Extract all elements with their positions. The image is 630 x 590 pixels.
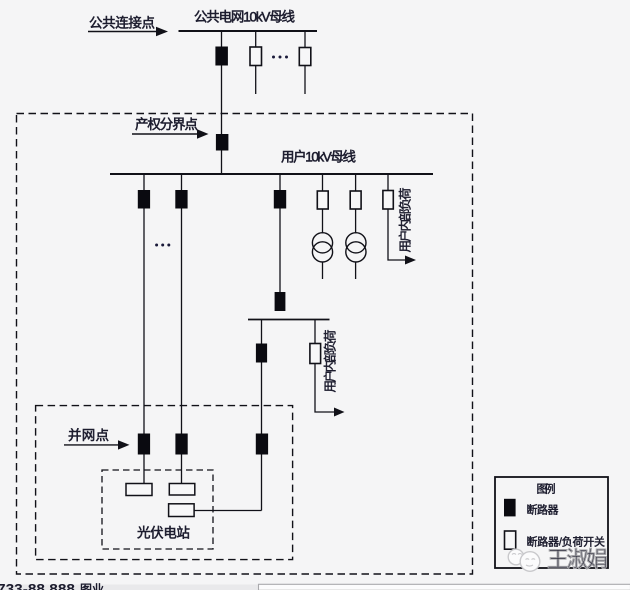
breaker QF1 (grid side, closed/filled) — [215, 47, 228, 66]
wire: PV feeder 1 — [143, 174, 145, 484]
ellipsis dots (more feeders) — [272, 56, 288, 59]
comment input box fragment bottom-right — [259, 584, 630, 590]
inverter unit 2 — [169, 484, 195, 496]
boundary: user installation dashed box — [17, 114, 473, 575]
switch S5 (internal load feeder) — [383, 191, 393, 210]
wire: inverter 3 to feeder 3 — [194, 510, 261, 512]
switch S2 (breaker/load switch) — [299, 48, 311, 66]
wire: grid feeder drop 2 — [255, 31, 257, 94]
switch S3 (transformer feeder 1) — [317, 191, 328, 209]
legend box — [495, 477, 608, 568]
switch S1 (breaker/load switch, open symbol) — [250, 47, 262, 66]
switch S4 (transformer feeder 2) — [350, 191, 361, 209]
breaker QF8 (grid connection point, feeder 1) — [138, 434, 150, 455]
arrow: internal load 2 — [334, 408, 345, 417]
svg-text:公共连接点: 公共连接点 — [89, 15, 155, 31]
arrow: public connection point pointer — [88, 27, 168, 36]
arrow: internal load 1 — [405, 256, 416, 265]
ellipsis dots (more PV feeders) — [155, 244, 170, 247]
boundary: grid-connection dashed box — [36, 406, 293, 560]
legend symbol: breaker/load switch — [505, 531, 516, 549]
wire: grid feeder drop (main) — [221, 31, 223, 174]
wire: internal load feeder — [388, 174, 406, 260]
wire: transformer feeder 1 — [322, 174, 324, 233]
wire: T1 secondary stub — [322, 262, 324, 279]
arrow: property demarcation pointer — [132, 129, 209, 138]
bus: public grid 10kV busbar — [179, 30, 318, 32]
breaker QF5 (sub-feeder top) — [274, 190, 286, 209]
wire: T2 secondary stub — [355, 262, 357, 279]
watermark: wechat emoji faces — [508, 549, 540, 571]
transformer T2 — [346, 233, 366, 262]
legend symbol: breaker — [504, 499, 516, 517]
arrow: grid connection pointer — [64, 440, 130, 449]
inverter unit 3 — [169, 504, 195, 517]
svg-text:用户内部负荷: 用户内部负荷 — [398, 188, 413, 253]
svg-text:王淑娟: 王淑娟 — [547, 547, 608, 572]
wire: transformer feeder 2 — [355, 174, 357, 233]
page strip at bottom — [0, 585, 630, 590]
bus: user 10kV busbar — [110, 173, 433, 175]
wire: PV feeder 2 — [181, 174, 183, 484]
breaker QF2 (property demarcation point) — [216, 134, 229, 151]
switch S6 (internal load feeder 2) — [310, 344, 321, 364]
breaker QF4 (PV feeder 2) — [175, 190, 187, 209]
bus: internal sub-busbar — [248, 319, 330, 321]
svg-text:并网点: 并网点 — [68, 428, 109, 443]
svg-text:用户内部负荷: 用户内部负荷 — [323, 330, 338, 393]
breaker QF6 (sub-feeder bottom) — [275, 292, 286, 311]
svg-text:光伏电站: 光伏电站 — [137, 526, 190, 541]
wire: internal load feeder 2 — [315, 320, 335, 413]
inverter unit 1 — [126, 484, 152, 496]
wire: grid feeder drop 3 — [304, 31, 306, 94]
svg-text:断路器: 断路器 — [527, 503, 559, 517]
transformer T1 — [312, 233, 332, 262]
wire: PV feeder 3 (from sub-bus) — [261, 320, 263, 511]
breaker QF9 (grid connection point, feeder 2) — [175, 434, 187, 455]
breaker QF7 (PV feeder 3) — [256, 344, 267, 363]
breaker QF3 (PV feeder 1) — [138, 190, 150, 209]
svg-text:图例: 图例 — [537, 482, 556, 496]
svg-text:产权分界点: 产权分界点 — [135, 116, 198, 132]
breaker QF10 (grid connection point, feeder 3) — [256, 434, 268, 455]
svg-text:公共电网10kV母线: 公共电网10kV母线 — [194, 10, 295, 25]
boundary: PV station dashed box — [102, 470, 213, 549]
svg-text:用户10kV母线: 用户10kV母线 — [281, 149, 356, 165]
wire: sub-feeder to internal bus — [279, 174, 281, 292]
